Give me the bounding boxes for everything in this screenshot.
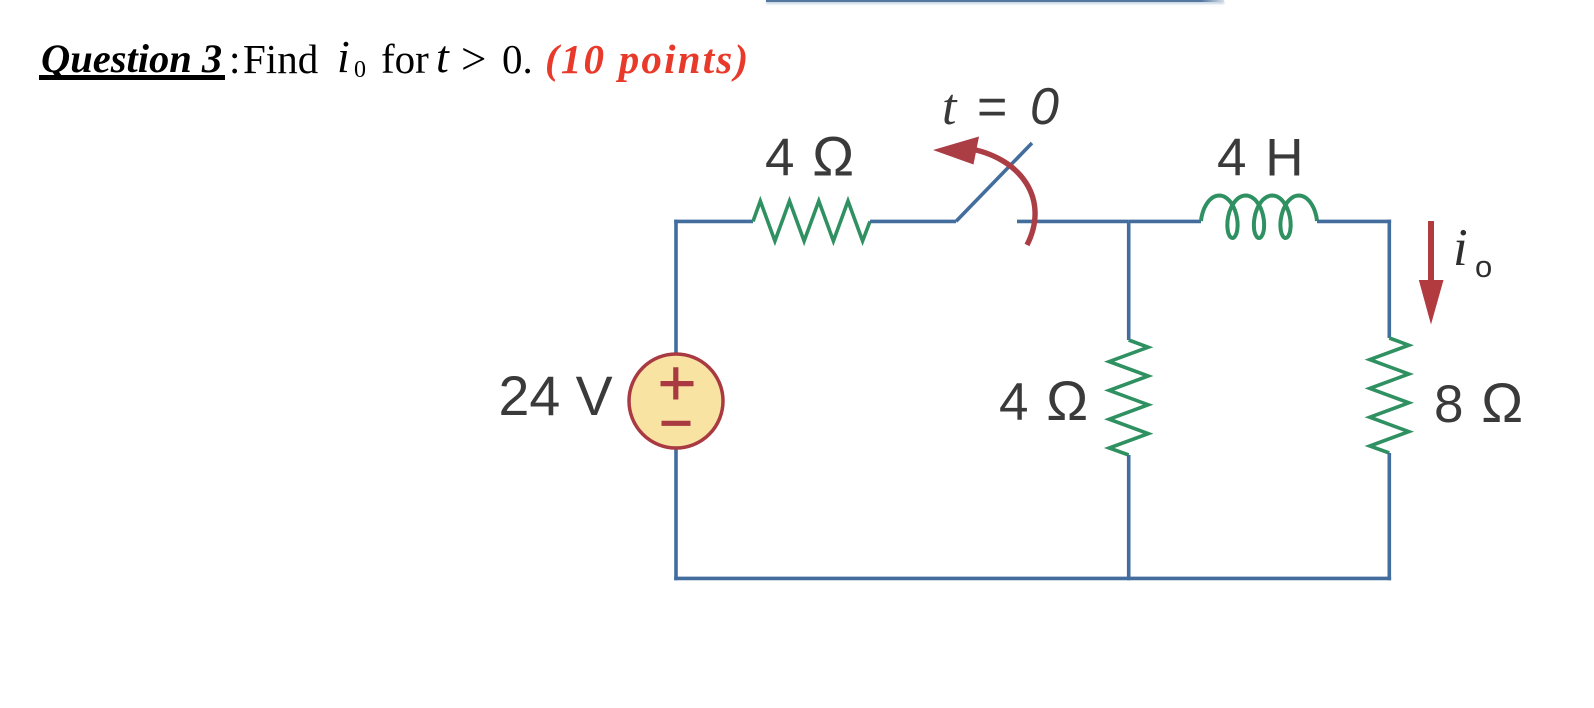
- wire: inductor to top-right corner: [1317, 220, 1391, 224]
- switch S1 right contact stub and wire to node A: [1017, 220, 1129, 224]
- inductor L1 4H: [1201, 196, 1317, 239]
- wire: left branch upper: [674, 220, 678, 356]
- resistor R3 8ohm vertical: [1370, 338, 1409, 453]
- wire: bottom rail: [674, 577, 1391, 581]
- svg-text:0: 0: [1030, 78, 1059, 136]
- wire: right branch lower: [1388, 453, 1392, 580]
- wire: middle branch lower: [1127, 455, 1131, 580]
- svg-text:4 H: 4 H: [1217, 129, 1305, 188]
- voltage source plus sign: [661, 367, 694, 399]
- svg-text:t: t: [942, 79, 958, 136]
- current arrow i_o head: [1419, 280, 1444, 325]
- wire: right branch upper: [1388, 220, 1392, 338]
- node A: middle branch junction / wire upper: [1127, 221, 1131, 340]
- svg-text:4 Ω: 4 Ω: [765, 125, 856, 188]
- svg-text:24 V: 24 V: [499, 365, 613, 427]
- partial blue rule (cropped edge of figure above): [766, 0, 1224, 2]
- wire: top-left horizontal (corner to R1): [674, 220, 753, 224]
- voltage source minus sign: [662, 421, 691, 426]
- svg-text:o: o: [1475, 249, 1492, 284]
- switch S1 blade (open): [956, 143, 1032, 221]
- svg-text:4 Ω: 4 Ω: [999, 369, 1090, 432]
- switch actuation arrow arc (red): [966, 148, 1035, 245]
- wire: R1 to switch pivot: [870, 220, 956, 224]
- title: [0, 0, 1, 1]
- svg-text:i: i: [1453, 219, 1468, 277]
- switch actuation arrowhead: [933, 137, 979, 165]
- resistor R1 4ohm horizontal: [753, 201, 870, 241]
- svg-text:=: =: [977, 78, 1007, 136]
- current arrow i_o shaft: [1428, 221, 1434, 282]
- wire: node A to inductor: [1129, 220, 1201, 224]
- svg-text:8 Ω: 8 Ω: [1434, 371, 1525, 434]
- resistor R2 4ohm vertical: [1109, 340, 1148, 455]
- voltage source V1 24V circle: [629, 354, 723, 448]
- wire: left branch lower: [674, 447, 678, 580]
- title underline: [39, 75, 225, 80]
